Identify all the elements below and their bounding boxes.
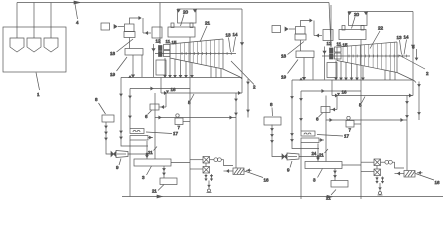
- svg-text:12: 12: [327, 41, 333, 46]
- inlet arrow U1: [152, 49, 155, 51]
- bus small arrow U1: [166, 91, 168, 93]
- deaerator drop wire U1: [163, 166, 165, 178]
- ejector inner line U2: [288, 156, 297, 158]
- leader 19 U2: [288, 60, 299, 74]
- extraction stub U1: [210, 67, 212, 78]
- intake wire U2: [417, 172, 423, 174]
- svg-text:21: 21: [326, 196, 331, 201]
- hp heater arrow1 U2: [300, 99, 302, 101]
- feeder out arrow U2: [285, 27, 288, 31]
- svg-text:21: 21: [319, 153, 324, 158]
- cooling out wire U2: [392, 162, 404, 168]
- pump circle U2: [347, 116, 350, 119]
- lower bus U1: [155, 93, 236, 118]
- gland box 17 U1: [156, 60, 166, 75]
- leader 13 U1: [229, 38, 231, 53]
- drain stub2 arrow2 U1: [211, 179, 213, 181]
- svg-text:3: 3: [142, 175, 145, 180]
- deaerator arrow2 U1: [163, 173, 165, 175]
- fan down wire U1: [132, 55, 134, 75]
- enclosure arrow U2: [412, 45, 415, 47]
- cooler X lower U1: [203, 167, 210, 174]
- bfp drop wire U1: [129, 140, 131, 197]
- extraction wire U2: [362, 66, 364, 78]
- inlet chest lower U1: [164, 51, 171, 57]
- svg-text:14: 14: [404, 35, 410, 40]
- hp heater arrow2 U2: [300, 119, 302, 121]
- feeder out arrow U1: [114, 25, 117, 29]
- pump circle U1: [176, 114, 179, 117]
- bunker house box 1: [3, 27, 66, 72]
- tank feed arrow1 U2: [271, 129, 273, 131]
- leader 9 U1: [119, 159, 121, 166]
- enclosure top U2: [367, 11, 413, 13]
- pump circles U1: [214, 158, 218, 162]
- bfp box U2: [301, 138, 319, 143]
- svg-text:5: 5: [359, 103, 362, 108]
- heater bus mid U2: [301, 90, 361, 92]
- bunker feed wire: [50, 3, 52, 39]
- boiler arrow right U2: [365, 12, 368, 14]
- extraction arrow U1: [164, 75, 166, 77]
- turbine top casing U2: [337, 42, 397, 47]
- inlet arrow U2: [323, 51, 326, 53]
- extraction arrow U2: [350, 78, 352, 80]
- leader 1: [36, 73, 40, 91]
- svg-text:16: 16: [342, 90, 348, 95]
- inlet valve block U2: [330, 48, 334, 53]
- turbine shaft U2: [322, 55, 410, 57]
- bfp drop wire U2: [300, 143, 302, 200]
- svg-text:13: 13: [226, 33, 232, 38]
- leader 9 U2: [290, 161, 292, 168]
- extraction wire U2: [340, 61, 342, 78]
- deaerator box 3 U2: [305, 162, 342, 169]
- aux drop wire U2: [418, 82, 420, 121]
- leader 6 U1: [148, 111, 152, 115]
- fan down wire2 U2: [312, 58, 314, 80]
- ejector bowtie U2: [282, 154, 285, 159]
- intake arrow U1: [248, 169, 250, 171]
- leader 3 U2: [318, 169, 323, 178]
- motor marks U1: [133, 131, 140, 133]
- tank feed arrow2 U2: [271, 135, 273, 137]
- bunker feed wire: [16, 3, 18, 39]
- svg-text:16: 16: [435, 180, 441, 185]
- junction dot U1: [146, 153, 148, 155]
- superheater box U1: [168, 27, 195, 37]
- hotwell drop wire U1: [154, 118, 156, 160]
- svg-text:20: 20: [183, 10, 189, 15]
- shaft ticks U2: [349, 55, 406, 58]
- heater6 feed wire U2: [331, 109, 338, 111]
- tank feed wire U2: [272, 125, 282, 157]
- leader 2 U2: [399, 55, 425, 69]
- leader 5 U1: [191, 94, 195, 101]
- svg-text:20: 20: [354, 12, 360, 17]
- lower bus arrow2 U1: [230, 116, 232, 119]
- heater6 feed arrow U1: [162, 106, 164, 109]
- bfp out wire U1: [148, 137, 153, 139]
- condenser arrow2 U1: [235, 113, 237, 115]
- leader 3 U1: [147, 166, 152, 175]
- boiler leg right U2: [361, 26, 364, 31]
- tank feed wire U1: [106, 122, 111, 154]
- motor marks U2: [304, 133, 311, 135]
- exhaust hood line U1: [223, 69, 240, 77]
- extraction arrow U1: [185, 75, 187, 77]
- bus link wire U2: [331, 80, 333, 96]
- inlet drop wire U1: [153, 44, 155, 77]
- leader 14 U2: [404, 40, 407, 55]
- cooler feed wire2 U2: [361, 171, 374, 173]
- feeder link wire U2: [289, 28, 295, 30]
- bus up arrow U2: [300, 78, 302, 80]
- extraction stub U1: [215, 68, 217, 78]
- extraction wire U1: [191, 63, 193, 76]
- cooler X upper U1: [203, 157, 210, 164]
- extraction wire U2: [345, 62, 347, 78]
- boiler arrow left U2: [348, 12, 351, 14]
- cooling out wire U1: [221, 160, 233, 166]
- mill-fan wire U1: [129, 38, 131, 49]
- tank box 23 U2: [331, 181, 348, 188]
- fan box 19 U2: [296, 51, 314, 58]
- deaerator out wire U1: [171, 162, 190, 164]
- burner feed arrow U1: [146, 32, 148, 35]
- heater drop wire U1: [121, 78, 148, 147]
- cooler feed wire2 U1: [190, 168, 203, 170]
- leader 20 U2: [352, 17, 356, 29]
- bus mid arrow U2: [322, 90, 324, 93]
- leader 17 U2: [317, 135, 343, 137]
- extraction stub U1: [220, 69, 222, 78]
- inlet chest lower U2: [335, 53, 342, 59]
- turbine blades U1: [176, 39, 219, 68]
- condenser drop wire U2: [406, 96, 408, 171]
- mill vent wire U2: [301, 21, 311, 27]
- bunker feed wire: [33, 3, 35, 39]
- drain stub2 arrow1 U1: [211, 175, 213, 177]
- svg-text:8: 8: [412, 45, 415, 50]
- pump box 7 U2: [346, 121, 354, 128]
- mill box lower U1: [124, 32, 135, 38]
- cooler X upper U2: [374, 159, 381, 166]
- aux drop arrow U2: [418, 85, 420, 87]
- heater6 feed wire U1: [160, 106, 167, 108]
- mill box upper U2: [296, 27, 306, 35]
- pump out wire U1: [183, 121, 190, 123]
- svg-text:17: 17: [344, 134, 350, 139]
- cooler box upper U2: [374, 159, 381, 166]
- leader 13 U2: [400, 40, 402, 55]
- turbine bottom casing U2: [337, 61, 397, 73]
- svg-text:6: 6: [145, 114, 148, 119]
- svg-text:19: 19: [110, 72, 116, 77]
- heater drop wire U2: [292, 80, 319, 149]
- drain stub2 arrow1 U2: [382, 178, 384, 180]
- svg-text:11: 11: [337, 41, 342, 46]
- bfp box U1: [130, 136, 148, 141]
- coal bus arrow: [74, 1, 80, 4]
- top coal bus: [17, 2, 329, 4]
- svg-text:7: 7: [178, 125, 181, 130]
- leader 5 U2: [362, 97, 366, 104]
- ejector horn U2: [287, 153, 299, 160]
- condensate bus arrow U2: [335, 94, 337, 97]
- extraction arrow U2: [356, 78, 358, 80]
- leader 17 U1: [146, 132, 172, 134]
- pump box 7 U1: [175, 118, 183, 125]
- bottom arrow right: [327, 195, 332, 198]
- leader 2 U1: [231, 61, 254, 85]
- cooling tower box U1: [233, 168, 244, 175]
- heater drop arrow2 U1: [120, 131, 122, 133]
- heater drop arrow1 U2: [291, 97, 293, 99]
- leader 18 U2: [288, 42, 305, 55]
- condenser arrow1 U2: [406, 102, 408, 104]
- leader 18 U1: [117, 39, 134, 52]
- exhaust hood tail U2: [414, 81, 416, 83]
- heater6 drop wire U2: [336, 96, 338, 110]
- leader 21b U1: [154, 147, 158, 151]
- svg-text:12: 12: [156, 38, 162, 43]
- intake wire U1: [246, 169, 252, 171]
- cooling return arrow U2: [398, 172, 400, 175]
- drain stub2 U1: [211, 174, 213, 181]
- leader 6 U2: [319, 113, 323, 117]
- edge wire U2: [416, 49, 418, 60]
- condensate bus arrow U1: [164, 92, 166, 95]
- bunker hopper: [44, 38, 58, 52]
- tank feed arrow1 U1: [105, 126, 107, 128]
- tank box 8 U2: [264, 117, 281, 125]
- vent drop wire U2: [313, 21, 315, 36]
- lower bus arrow1 U2: [330, 119, 332, 122]
- tank feed arrow3 U2: [271, 141, 273, 143]
- hp heater wire U2: [300, 91, 302, 131]
- leader 21 U1: [200, 26, 207, 42]
- heater box 6 U1: [150, 104, 159, 110]
- inlet drop wire U2: [324, 47, 326, 80]
- extraction arrow U2: [362, 78, 364, 80]
- ejector horn U1: [116, 151, 128, 158]
- extraction arrow U2: [340, 78, 342, 80]
- enclosure right U2: [412, 12, 414, 96]
- bus small arrow U2: [337, 93, 339, 95]
- coal feeder box U2: [272, 26, 281, 33]
- cooler X lower U2: [374, 169, 381, 176]
- mill-fan wire U2: [300, 40, 302, 51]
- inlet chest upper U2: [335, 47, 342, 52]
- extraction stub U2: [394, 72, 396, 80]
- coal feeder box U1: [101, 23, 110, 30]
- unit divider U2: [360, 40, 362, 200]
- condensate bus arrow2 U1: [238, 92, 240, 95]
- leader bottom U2: [331, 190, 336, 196]
- heater bus mid U1: [130, 88, 190, 90]
- extraction wire U2: [335, 61, 337, 79]
- lower bus arrow1 U1: [159, 116, 161, 119]
- deaerator arrow1 U2: [334, 171, 336, 173]
- drain stub1 U1: [205, 174, 207, 181]
- mill box upper U1: [125, 24, 135, 32]
- extraction wire U1: [185, 61, 187, 75]
- junction arrow U2: [317, 158, 319, 160]
- mill vent wire U1: [130, 18, 140, 24]
- tank box 23 U1: [160, 178, 177, 185]
- cooler box lower U2: [374, 169, 381, 176]
- fan down wire2 U1: [141, 55, 143, 77]
- enclosure top U1: [196, 8, 242, 10]
- bus up arrow U1: [129, 76, 131, 78]
- extraction arrow U1: [174, 75, 176, 77]
- cooler link wire U2: [376, 166, 378, 170]
- pump out wire U2: [354, 123, 361, 125]
- unit divider U1: [189, 37, 191, 197]
- deaerator out wire U2: [342, 164, 361, 166]
- svg-text:7: 7: [349, 128, 352, 133]
- bus link wire U1: [160, 78, 162, 94]
- bfp out arrow U2: [321, 139, 323, 141]
- condenser arrow1 U1: [235, 99, 237, 101]
- heater drop arrow2 U2: [291, 134, 293, 136]
- pump link wire1 U1: [210, 159, 214, 161]
- cooling tower hatch U2: [405, 171, 415, 177]
- cooling tower hatch U1: [234, 169, 244, 175]
- burner box U2: [323, 30, 333, 41]
- burner feed wire U2: [314, 35, 322, 37]
- right unit coal drop: [329, 3, 331, 48]
- coal drop wire U1: [159, 3, 161, 45]
- svg-text:2: 2: [253, 85, 256, 90]
- heater6 drop wire U1: [165, 93, 167, 107]
- turbine top casing U1: [170, 39, 223, 44]
- extraction arrow U1: [179, 75, 181, 77]
- bfp out wire U2: [319, 139, 324, 141]
- boiler box 20 U1: [178, 9, 197, 23]
- condensate bus arrow2 U2: [409, 94, 411, 97]
- heater bus upper U1: [121, 77, 242, 79]
- drain stub1 arrow1 U2: [376, 178, 378, 180]
- leader bottom U1: [158, 185, 164, 191]
- heater drop arrow3 U1: [120, 137, 122, 139]
- extraction stub U2: [384, 70, 386, 80]
- fan box 19 U1: [125, 49, 143, 56]
- drain arrow U2: [379, 188, 381, 190]
- lower bus U2: [326, 96, 407, 121]
- drain symbol U1: [208, 189, 211, 192]
- aux drop wire U1: [247, 79, 249, 118]
- bus mid arrow U1: [151, 87, 153, 90]
- gland box 17 U2: [327, 63, 337, 78]
- aux drop arrow U1: [247, 82, 249, 84]
- boiler leg left U1: [171, 23, 174, 28]
- extraction stub U2: [389, 71, 391, 80]
- aux drop arrow2 U1: [247, 110, 249, 112]
- extraction wire U2: [351, 63, 353, 78]
- svg-text:1: 1: [37, 92, 40, 97]
- drain arrow U1: [208, 185, 210, 187]
- svg-text:16: 16: [171, 87, 177, 92]
- leader 16b U1: [245, 171, 264, 178]
- cooler feed wire1 U1: [190, 159, 203, 161]
- cooling return wire U1: [224, 170, 234, 172]
- inlet valve block2 U1: [159, 52, 163, 57]
- extraction wire U1: [169, 58, 171, 76]
- boiler arrow right U1: [194, 10, 197, 12]
- svg-text:22: 22: [378, 26, 384, 31]
- drain drop wire U2: [379, 183, 381, 191]
- svg-text:8: 8: [95, 97, 98, 102]
- cooler link wire U1: [205, 163, 207, 167]
- svg-text:9: 9: [116, 165, 119, 170]
- burner feed wire U1: [143, 32, 151, 34]
- svg-text:21: 21: [148, 150, 153, 155]
- svg-text:18: 18: [110, 51, 116, 56]
- boiler arrow left U1: [177, 10, 180, 12]
- svg-text:14: 14: [233, 32, 239, 37]
- svg-text:13: 13: [397, 35, 403, 40]
- ejector out wire U1: [128, 153, 147, 155]
- turbine shaft U1: [155, 53, 236, 55]
- leader 20 U1: [181, 15, 185, 27]
- leader 14 U1: [233, 37, 236, 52]
- vent arrow U1: [139, 17, 141, 20]
- coal drop wire U2: [330, 5, 332, 47]
- drain drop wire U1: [208, 181, 210, 189]
- extraction arrow U2: [335, 78, 337, 80]
- extraction arrow U2: [345, 78, 347, 80]
- deaerator box 3 U1: [134, 159, 171, 166]
- heater drop arrow3 U2: [291, 140, 293, 142]
- burner box U1: [152, 27, 162, 38]
- boiler leg left U2: [342, 26, 345, 31]
- extraction wire U1: [180, 60, 182, 75]
- fan down wire U2: [303, 58, 305, 78]
- lower bus arrow2 U2: [401, 119, 403, 122]
- svg-text:6: 6: [316, 117, 319, 122]
- svg-text:18: 18: [281, 54, 287, 59]
- heater drop arrow1 U1: [120, 94, 122, 96]
- drain stub2 U2: [382, 177, 384, 184]
- junction drop wire U1: [146, 141, 148, 159]
- drain stub1 U2: [376, 177, 378, 184]
- boiler leg right U1: [190, 23, 193, 28]
- junction arrow U1: [146, 156, 148, 158]
- extraction wire U1: [164, 58, 166, 76]
- burner feed arrow U2: [317, 34, 319, 37]
- svg-text:21: 21: [152, 189, 157, 194]
- leader 8 U2: [271, 108, 274, 117]
- extraction wire U2: [356, 65, 358, 79]
- leader 16b U2: [416, 174, 435, 181]
- drain stub1 arrow2 U1: [205, 179, 207, 181]
- junction dot U2: [317, 156, 319, 158]
- tank box 8 U1: [102, 115, 114, 122]
- inlet valve block2 U2: [330, 54, 334, 59]
- leader 19 U1: [117, 57, 128, 71]
- svg-text:21: 21: [205, 21, 211, 26]
- cooling tower box U2: [404, 171, 415, 178]
- vent arrow U2: [310, 19, 312, 22]
- ejector bowtie U1: [111, 152, 114, 157]
- cooler box lower U1: [203, 167, 210, 174]
- enclosure right U1: [241, 9, 243, 93]
- leader 4: [75, 4, 78, 19]
- leader 8 U1: [99, 103, 106, 114]
- enclosure arrow U1: [241, 43, 244, 45]
